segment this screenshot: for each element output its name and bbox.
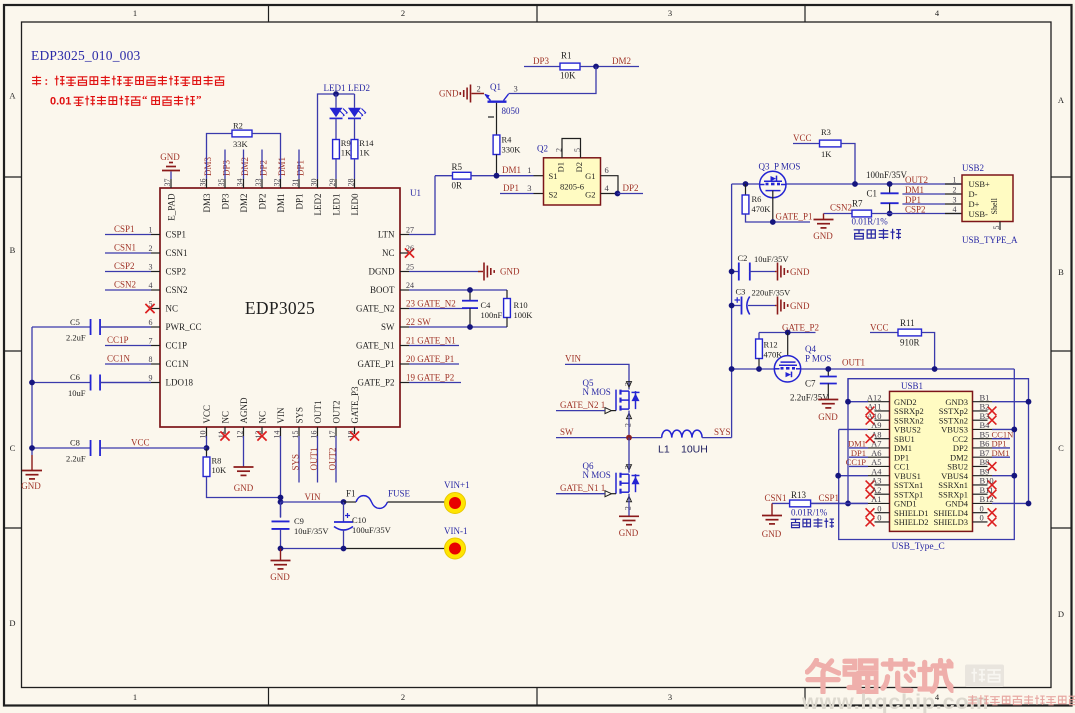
svg-text:C8: C8 (70, 438, 80, 448)
svg-text:CSP1: CSP1 (114, 224, 135, 234)
svg-text:VCC: VCC (131, 438, 150, 448)
LED LED2 (354, 94, 356, 108)
svg-text:Q2: Q2 (537, 144, 548, 154)
svg-text:CSP1: CSP1 (819, 493, 840, 503)
svg-text:Q1: Q1 (490, 82, 501, 92)
svg-text:CSN1: CSN1 (114, 243, 136, 253)
svg-text:0.01: 0.01 (50, 96, 71, 108)
svg-text:1: 1 (133, 692, 137, 702)
svg-text:GND: GND (500, 267, 520, 277)
svg-text:DP3: DP3 (533, 56, 550, 66)
svg-text:3: 3 (514, 84, 518, 94)
svg-text:CSN1: CSN1 (765, 493, 787, 503)
junction R8/VIN (278, 495, 284, 501)
wire LTN pin27 to R5 (409, 176, 435, 235)
svg-text:A: A (9, 91, 16, 101)
junction DM1 node (494, 173, 500, 179)
svg-text:CSN2: CSN2 (166, 285, 188, 295)
ground AGND (234, 466, 254, 468)
svg-text:1K: 1K (359, 148, 370, 158)
resistor R13 0.01R (790, 500, 811, 507)
wire SW pin22 rail (409, 326, 507, 328)
wires Q2 G1/G2 join (601, 176, 619, 194)
svg-text:SHIELD3: SHIELD3 (934, 517, 968, 527)
junction R6 top (743, 181, 749, 187)
wires USB2 DM1 DP1 stubs (902, 193, 945, 195)
svg-text:SYS: SYS (291, 454, 301, 471)
resistor R8 10K (206, 448, 208, 457)
wire SW (556, 437, 662, 439)
junction GND bus A12 (845, 399, 851, 405)
svg-text:C: C (10, 443, 16, 453)
terminal VIN+1 (445, 493, 466, 514)
svg-text:OUT2: OUT2 (905, 175, 928, 185)
svg-text:3: 3 (527, 183, 531, 193)
svg-text:GND: GND (21, 481, 41, 491)
svg-text:DM1: DM1 (905, 185, 924, 195)
svg-text:C10: C10 (352, 515, 366, 525)
svg-text:3: 3 (953, 195, 957, 204)
mosfet Q4 P MOS (774, 356, 800, 382)
svg-text:R13: R13 (791, 490, 807, 500)
wire GND bus left (847, 379, 849, 504)
capacitor C9 10uF/35V (280, 502, 282, 518)
svg-text:D+: D+ (969, 199, 980, 209)
svg-text:GND: GND (790, 267, 810, 277)
red note line 1 (Chinese) (32, 76, 41, 86)
Q2 top pins 2,5 bracket (562, 139, 581, 158)
svg-text:NC: NC (166, 304, 179, 314)
svg-text:GATE_P1: GATE_P1 (357, 359, 394, 369)
svg-text:GND: GND (234, 483, 254, 493)
svg-text:E_PAD: E_PAD (167, 193, 177, 221)
svg-text:DM3: DM3 (202, 193, 212, 213)
svg-text:8205-6: 8205-6 (560, 181, 584, 191)
svg-text:R7: R7 (852, 199, 863, 209)
junction C10 top (341, 499, 347, 505)
mosfet Q6 N MOS (616, 473, 640, 494)
wire SW to Q6 drain (628, 438, 630, 473)
junction R3 riser (852, 181, 858, 187)
net label GATE_N2 1 + wire (556, 410, 605, 412)
svg-text:CSN1: CSN1 (166, 248, 188, 258)
svg-text:23 GATE_N2: 23 GATE_N2 (406, 298, 456, 308)
svg-text:R5: R5 (452, 162, 463, 172)
power gnd at C2 (775, 271, 777, 273)
capacitor C5 2.2uF (32, 326, 91, 328)
wire Q1 collector riser (509, 67, 597, 94)
svg-text:5: 5 (573, 148, 582, 152)
svg-text:2: 2 (477, 84, 481, 94)
svg-text:10uF/35V: 10uF/35V (294, 526, 329, 536)
wire OUT2 rail (732, 183, 962, 185)
svg-text:R14: R14 (359, 138, 374, 148)
connector USB2 USB_TYPE_A (962, 175, 1013, 222)
junction VCC/R8 (204, 445, 210, 451)
svg-text:2.2uF: 2.2uF (66, 454, 86, 464)
net label GATE_N1 1 + wire (556, 493, 605, 495)
svg-text:Shell: Shell (990, 197, 999, 214)
svg-text:GATE_P3: GATE_P3 (350, 386, 360, 424)
SYS vertical bus (731, 184, 733, 438)
junction C9 bottom (278, 546, 284, 552)
junction SYS bus (729, 366, 735, 372)
svg-text:SHIELD2: SHIELD2 (894, 517, 928, 527)
svg-text:D: D (9, 618, 15, 628)
svg-text:Q4: Q4 (805, 344, 816, 354)
resistor R3 1K (820, 140, 842, 147)
svg-text:LED1: LED1 (332, 194, 342, 216)
svg-text:C3: C3 (736, 287, 746, 297)
svg-text:R3: R3 (821, 127, 831, 137)
junction LED1 anode (333, 91, 339, 97)
terminal VIN-1 (445, 538, 466, 559)
wire VIN node (281, 501, 344, 503)
svg-text:LED2: LED2 (348, 83, 370, 93)
wire VCC pin10 down (206, 436, 208, 448)
svg-text:DP1: DP1 (503, 183, 519, 193)
junction C2 (729, 269, 735, 275)
svg-text:100K: 100K (514, 310, 534, 320)
svg-text:DP3: DP3 (222, 159, 232, 176)
capacitor C10 100uF/35V (polarized) (343, 502, 345, 522)
wire pin30 to LED rail (318, 94, 355, 179)
svg-text:GND: GND (818, 412, 838, 422)
svg-text:34: 34 (235, 179, 244, 187)
svg-text:R8: R8 (212, 456, 222, 466)
USB1 pin B6 DP2 (973, 447, 993, 449)
svg-text:SW: SW (560, 427, 574, 437)
capacitor C8 2.2uF (32, 447, 91, 449)
svg-text:100uF/35V: 100uF/35V (352, 525, 392, 535)
svg-text:GND: GND (439, 89, 459, 99)
svg-text:1K: 1K (821, 149, 832, 159)
wire pin stub (243, 150, 245, 180)
ground Q6 (619, 515, 639, 517)
svg-text:0.01R/1%: 0.01R/1% (791, 508, 828, 518)
svg-text:LDO18: LDO18 (166, 378, 194, 388)
svg-text:CSN2: CSN2 (114, 280, 136, 290)
wire pin stub (298, 150, 300, 180)
svg-text:C1: C1 (867, 189, 878, 199)
svg-text:C: C (1058, 443, 1064, 453)
svg-text:R6: R6 (752, 194, 762, 204)
svg-text:30: 30 (309, 179, 318, 187)
svg-text:LED1: LED1 (324, 83, 346, 93)
svg-text:9: 9 (149, 374, 153, 383)
svg-text:GND: GND (619, 528, 639, 538)
wire VIN- bottom (281, 548, 344, 550)
svg-text:GND: GND (813, 231, 833, 241)
svg-text:32: 32 (272, 179, 281, 187)
svg-text:27: 27 (406, 225, 414, 234)
LED LED1 (335, 94, 337, 108)
power gnd at C3 (775, 305, 777, 307)
svg-text:GATE_P1: GATE_P1 (776, 212, 813, 222)
svg-text:S2: S2 (549, 190, 558, 200)
junction VBUS B4 (1011, 427, 1017, 433)
fuse F1 (344, 501, 357, 503)
svg-text:31: 31 (291, 179, 300, 187)
USB1 pin B9 VBUS4 (973, 475, 993, 477)
svg-text:R12: R12 (764, 340, 778, 350)
junction G2/DP2 (615, 191, 621, 197)
USB1 pin B11 SSRXp1 (973, 493, 988, 495)
wire VIN pin14 down (280, 436, 282, 517)
USB1 pin B2 SSTXp2 (973, 410, 988, 412)
wire GATE_P2 pin19 stub (409, 382, 461, 384)
USB1 pin 0 SHIELD3 (973, 521, 988, 523)
svg-text:OUT1: OUT1 (313, 401, 323, 424)
svg-text:OUT2: OUT2 (328, 448, 338, 471)
svg-text:C4: C4 (481, 300, 492, 310)
junction C3 (729, 303, 735, 309)
svg-text:NC: NC (258, 411, 268, 424)
svg-text:L1: L1 (658, 444, 670, 456)
watermark brand (807, 659, 952, 692)
svg-text:0: 0 (877, 513, 881, 523)
svg-text:6: 6 (605, 165, 609, 175)
svg-text:”: ” (196, 94, 202, 106)
svg-text:CSP2: CSP2 (905, 205, 926, 215)
svg-text:3: 3 (668, 692, 672, 702)
svg-text:DP2: DP2 (623, 183, 639, 193)
svg-text:2: 2 (624, 506, 633, 510)
svg-text:USB_TYPE_A: USB_TYPE_A (962, 235, 1018, 245)
svg-text:2.2uF: 2.2uF (66, 333, 86, 343)
wire Q3 gate (772, 191, 774, 222)
wire pin17 stub + net label OUT2 (335, 436, 337, 483)
svg-text:3: 3 (668, 8, 672, 18)
svg-text:220uF/35V: 220uF/35V (752, 288, 792, 298)
VBUS wire loop under USB1 (839, 369, 1015, 540)
svg-text:LTN: LTN (378, 230, 395, 240)
wire Q6 source to gnd (628, 494, 630, 516)
USB1 pin B1 GND3 (973, 401, 993, 403)
ground under C9 (280, 549, 282, 561)
wire pin16 stub + net label OUT1 (317, 436, 319, 483)
svg-text:1: 1 (133, 8, 137, 18)
svg-text:24: 24 (406, 281, 414, 290)
transistor Q1 8050 (485, 94, 509, 102)
svg-text:C7: C7 (805, 379, 816, 389)
svg-text:2: 2 (953, 185, 957, 194)
ground at CSN2 (823, 214, 825, 220)
junction Q3 gate / GATE_P1 (770, 219, 776, 225)
svg-text:4: 4 (149, 281, 153, 290)
wire GATE_P1 pin20 stub (409, 363, 459, 365)
resistor R14 1K (351, 140, 358, 159)
svg-text:R2: R2 (233, 121, 243, 131)
junction R12 bottom (756, 366, 762, 372)
svg-text:C9: C9 (294, 516, 304, 526)
svg-text:CSN2: CSN2 (830, 203, 852, 213)
wire pin stub (261, 150, 263, 180)
junction C10 bottom (341, 546, 347, 552)
svg-text:1: 1 (953, 175, 957, 184)
resistor R10 (506, 290, 508, 299)
wire AGND pin12 (243, 436, 245, 467)
svg-text:DP2: DP2 (258, 194, 268, 210)
junction R11/OUT1 (932, 366, 938, 372)
svg-text:1: 1 (149, 226, 153, 235)
svg-text:VIN+1: VIN+1 (444, 480, 470, 490)
capacitor C1 100nF/35V (889, 184, 891, 193)
resistor R9 1K (333, 140, 340, 159)
wire DP1 to Q2 (500, 193, 534, 195)
svg-text:EDP3025_010_003: EDP3025_010_003 (31, 48, 141, 63)
svg-text:1: 1 (527, 165, 531, 175)
USB1 pin B3 SSTXn2 (973, 419, 988, 421)
svg-text:470K: 470K (752, 204, 772, 214)
svg-text:DGND: DGND (369, 267, 395, 277)
svg-text:VCC: VCC (870, 323, 889, 333)
svg-text:USB+: USB+ (969, 179, 991, 189)
svg-text:7: 7 (149, 337, 153, 346)
svg-text:0R: 0R (452, 181, 463, 191)
svg-text:GATE_N2 1: GATE_N2 1 (560, 400, 605, 410)
svg-text:LED0: LED0 (350, 193, 360, 215)
svg-text:330K: 330K (502, 145, 522, 155)
svg-text:“: “ (142, 94, 148, 106)
svg-text:VIN: VIN (565, 354, 581, 364)
svg-text:GND: GND (160, 152, 180, 162)
svg-text:USB1: USB1 (901, 381, 923, 391)
capacitor C2 10uF/35V (732, 271, 739, 273)
svg-text:GATE_N1 1: GATE_N1 1 (560, 483, 605, 493)
svg-text:NC: NC (221, 411, 231, 424)
svg-text:USB2: USB2 (962, 163, 984, 173)
svg-text:1K: 1K (341, 148, 352, 158)
svg-text:P MOS: P MOS (805, 354, 831, 364)
svg-text:8050: 8050 (502, 106, 521, 116)
wire L1 to SYS riser (702, 437, 732, 439)
svg-text:R1: R1 (561, 51, 572, 61)
USB1 pin B8 SBU2 (973, 465, 988, 467)
junction C6/bus (29, 380, 35, 386)
wire OUT1 rail (732, 368, 1015, 370)
wire BOOT pin24 rail (409, 289, 507, 291)
svg-text:SW: SW (381, 322, 395, 332)
junction GND bus B12 (1026, 501, 1032, 507)
svg-text:4: 4 (953, 205, 957, 214)
svg-text:35: 35 (217, 179, 226, 187)
mosfet Q3 P MOS (760, 171, 786, 197)
resistor R7 0.01R (824, 213, 853, 215)
svg-text:DP1: DP1 (296, 160, 306, 176)
svg-text:2: 2 (401, 692, 405, 702)
junction SW node (626, 435, 632, 441)
svg-text:U1: U1 (410, 188, 421, 198)
svg-text:26: 26 (406, 244, 414, 253)
svg-text:B: B (10, 245, 16, 255)
wire pin15 stub + net label SYS (298, 436, 300, 483)
svg-text:GND: GND (270, 572, 290, 582)
svg-text:CC1P: CC1P (166, 341, 188, 351)
capacitor C4 (469, 290, 471, 301)
svg-text:FUSE: FUSE (388, 489, 411, 499)
inductor L1 10UH (662, 430, 702, 437)
junction Q4 gate (785, 330, 791, 336)
connector USB1 USB_Type_C (890, 391, 973, 531)
svg-text:AGND: AGND (239, 397, 249, 423)
svg-text:2: 2 (555, 148, 564, 152)
svg-text:100nF/35V: 100nF/35V (866, 170, 908, 180)
resistor R5 0R (435, 175, 453, 177)
junction GND bus B1 (1026, 399, 1032, 405)
svg-text:NC: NC (382, 248, 395, 258)
svg-text:DM1: DM1 (277, 157, 287, 176)
junction C1 bottom (887, 211, 893, 217)
svg-text:3: 3 (149, 263, 153, 272)
USB1 pin B4 VBUS3 (973, 428, 993, 430)
svg-text:DP1: DP1 (905, 195, 921, 205)
wire R11 to OUT1 (922, 333, 935, 370)
resistor R6 470K (745, 184, 747, 195)
svg-text:R11: R11 (900, 318, 915, 328)
svg-text:OUT1: OUT1 (309, 448, 319, 471)
svg-text:C5: C5 (70, 317, 80, 327)
svg-text:BOOT: BOOT (370, 285, 395, 295)
svg-text:5: 5 (992, 226, 1001, 230)
svg-text:R9: R9 (341, 138, 351, 148)
svg-text:10K: 10K (560, 71, 576, 81)
svg-text:www.hqchip.com: www.hqchip.com (801, 690, 989, 713)
svg-text:F1: F1 (346, 489, 356, 499)
svg-text:B: B (1058, 267, 1064, 277)
svg-text:0: 0 (980, 513, 984, 523)
svg-text:LED2: LED2 (313, 194, 323, 216)
GND loop over USB1 (848, 379, 1029, 504)
svg-text:SYS: SYS (295, 407, 305, 424)
svg-text:GATE_N2: GATE_N2 (356, 304, 395, 314)
wire pin stub (224, 150, 226, 180)
svg-text:R10: R10 (514, 300, 528, 310)
svg-text:DM1: DM1 (502, 165, 521, 175)
svg-text:0.01R/1%: 0.01R/1% (852, 217, 889, 227)
svg-text:10K: 10K (212, 465, 228, 475)
svg-text:22 SW: 22 SW (406, 317, 431, 327)
svg-text:CC1N: CC1N (166, 359, 190, 369)
junction VBUS B9 (1011, 473, 1017, 479)
svg-text:DM1: DM1 (276, 194, 286, 213)
svg-text:S1: S1 (549, 171, 558, 181)
svg-text:2: 2 (149, 244, 153, 253)
svg-text:28: 28 (346, 179, 355, 187)
wire Q5 source to SW (628, 411, 630, 438)
junction VIN wire (278, 499, 284, 505)
junction C4 bottom (467, 324, 473, 330)
junction C1 top (887, 181, 893, 187)
svg-text:100nF: 100nF (481, 310, 503, 320)
svg-text:A: A (1058, 95, 1065, 105)
svg-text:SYS: SYS (714, 427, 731, 437)
junction R1/DM2 (593, 64, 599, 70)
capacitor C7 2.2uF/35V (827, 369, 829, 377)
svg-text:910R: 910R (900, 338, 920, 348)
svg-text:DM3: DM3 (203, 156, 213, 176)
transistor Q2 8205-6 (dual mosfet) (544, 158, 601, 205)
svg-text:6: 6 (149, 318, 153, 327)
mosfet Q5 N MOS (616, 390, 640, 411)
svg-text:USB-: USB- (969, 209, 989, 219)
blue text alloy resistor 2 (791, 518, 834, 528)
svg-text:10uF: 10uF (68, 388, 86, 398)
junction GND bus A1 (845, 501, 851, 507)
svg-text:DP1: DP1 (295, 194, 305, 210)
left GND bus (31, 327, 33, 455)
capacitor C3 220uF/35V polarized (732, 305, 741, 307)
